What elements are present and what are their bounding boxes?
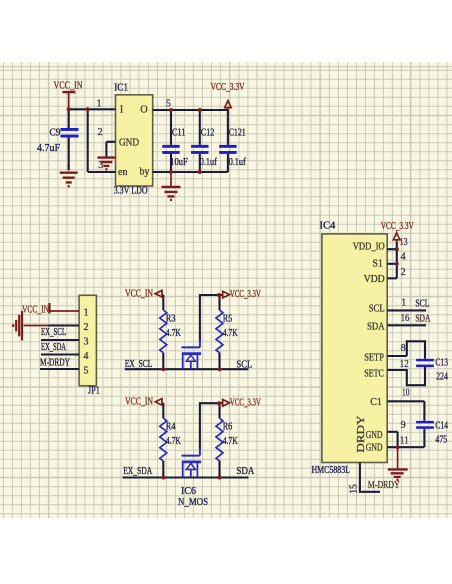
svg-text:GND: GND — [366, 430, 383, 441]
svg-text:2: 2 — [84, 322, 89, 333]
svg-text:8: 8 — [401, 343, 406, 354]
svg-text:VCC_3.3V: VCC_3.3V — [381, 220, 414, 232]
svg-text:12: 12 — [400, 359, 409, 370]
svg-text:10uF: 10uF — [170, 157, 188, 168]
svg-text:EX_SDA: EX_SDA — [41, 342, 66, 353]
svg-text:DRDY: DRDY — [356, 416, 367, 453]
svg-text:4: 4 — [84, 351, 89, 362]
svg-text:13: 13 — [400, 237, 408, 248]
svg-text:S1: S1 — [372, 258, 383, 269]
svg-text:C121: C121 — [229, 127, 246, 138]
svg-text:VCC_3.3V: VCC_3.3V — [230, 288, 261, 300]
svg-text:C11: C11 — [172, 127, 186, 138]
svg-text:C1: C1 — [370, 397, 382, 408]
svg-text:11: 11 — [400, 435, 409, 446]
svg-text:SCL: SCL — [415, 298, 429, 309]
svg-text:VCC_3.3V: VCC_3.3V — [230, 396, 261, 408]
svg-text:JP1: JP1 — [88, 385, 100, 396]
svg-text:224: 224 — [436, 372, 448, 383]
svg-text:4.7K: 4.7K — [223, 436, 238, 447]
svg-text:N_MOS: N_MOS — [178, 497, 208, 508]
svg-text:1: 1 — [97, 98, 102, 109]
svg-text:EX_SCL: EX_SCL — [125, 359, 153, 370]
svg-text:1: 1 — [401, 298, 406, 309]
svg-text:475: 475 — [435, 435, 447, 446]
svg-text:R5: R5 — [223, 313, 233, 324]
svg-text:IC4: IC4 — [319, 221, 336, 232]
svg-text:3.3V LDO: 3.3V LDO — [114, 186, 148, 197]
svg-text:1: 1 — [84, 307, 89, 318]
svg-text:EX_SCL: EX_SCL — [41, 327, 66, 338]
svg-text:9: 9 — [401, 420, 406, 431]
svg-text:M-DRDY: M-DRDY — [368, 480, 400, 491]
svg-text:SCL: SCL — [236, 359, 252, 370]
svg-text:2: 2 — [401, 267, 406, 278]
svg-text:SETC: SETC — [364, 368, 384, 379]
svg-text:SDA: SDA — [236, 466, 254, 477]
svg-text:C14: C14 — [435, 421, 448, 432]
svg-text:4.7K: 4.7K — [223, 328, 238, 339]
svg-text:VCC_IN: VCC_IN — [22, 303, 49, 315]
svg-text:O: O — [140, 105, 147, 116]
svg-text:GND: GND — [119, 138, 139, 149]
svg-text:R4: R4 — [166, 421, 176, 432]
svg-text:SETP: SETP — [364, 353, 384, 364]
svg-text:0.1uf: 0.1uf — [229, 157, 246, 168]
svg-text:16: 16 — [401, 313, 410, 324]
svg-text:VCC_IN: VCC_IN — [125, 396, 153, 408]
svg-text:3: 3 — [84, 336, 89, 347]
svg-text:M-DRDY: M-DRDY — [40, 357, 70, 368]
svg-text:C13: C13 — [435, 358, 448, 369]
svg-text:5: 5 — [84, 365, 89, 376]
svg-text:IC6: IC6 — [181, 486, 196, 497]
svg-text:VCC_3.3V: VCC_3.3V — [211, 81, 245, 93]
svg-text:4.7uF: 4.7uF — [37, 143, 60, 154]
svg-text:GND: GND — [366, 442, 383, 453]
svg-text:R6: R6 — [223, 421, 233, 432]
svg-text:C12: C12 — [201, 127, 215, 138]
svg-text:VDD_IO: VDD_IO — [353, 242, 385, 253]
svg-text:4.7K: 4.7K — [166, 436, 181, 447]
svg-text:R3: R3 — [166, 313, 176, 324]
svg-text:by: by — [140, 166, 150, 177]
svg-text:4: 4 — [401, 252, 406, 263]
svg-text:SDA: SDA — [415, 313, 430, 324]
svg-text:VCC_IN: VCC_IN — [54, 80, 83, 92]
svg-text:VCC_IN: VCC_IN — [125, 287, 153, 299]
svg-text:HMC5883L: HMC5883L — [312, 465, 351, 476]
svg-text:4.7K: 4.7K — [166, 328, 181, 339]
svg-text:en: en — [118, 167, 127, 178]
svg-text:15: 15 — [349, 484, 360, 494]
svg-text:I: I — [120, 105, 123, 116]
svg-text:IC1: IC1 — [114, 82, 128, 93]
svg-text:3: 3 — [98, 160, 103, 171]
svg-text:C9: C9 — [50, 127, 61, 138]
svg-text:VDD: VDD — [364, 274, 385, 285]
svg-text:0.1uf: 0.1uf — [200, 157, 217, 168]
svg-text:SCL: SCL — [369, 304, 385, 315]
svg-text:10: 10 — [402, 387, 409, 398]
svg-text:5: 5 — [166, 98, 171, 109]
svg-text:EX_SDA: EX_SDA — [123, 466, 152, 477]
svg-text:2: 2 — [98, 127, 103, 138]
svg-text:SDA: SDA — [367, 321, 385, 332]
